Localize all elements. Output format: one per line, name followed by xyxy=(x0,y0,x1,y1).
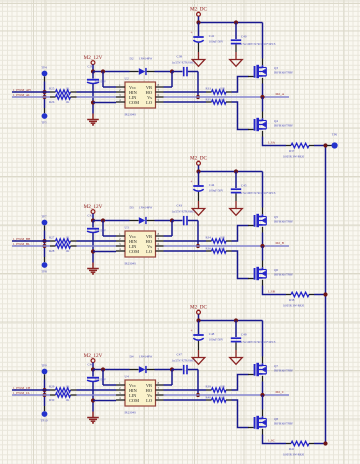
svg-text:R37: R37 xyxy=(289,149,295,153)
testpoint TP8 xyxy=(41,246,47,273)
wire LO xyxy=(164,101,207,103)
capacitor C46 (12V decoupling) xyxy=(87,362,107,411)
svg-text:R41: R41 xyxy=(289,447,295,451)
wire COM to gnd xyxy=(93,251,116,253)
svg-text:M2_DC: M2_DC xyxy=(190,305,208,311)
capacitor C43 (bootstrap) xyxy=(172,204,199,226)
wire HO to high gate xyxy=(232,77,249,93)
wire shunt to sense rail xyxy=(314,443,327,445)
junction TP/HIN xyxy=(43,388,47,392)
wire LIN to pin 3 xyxy=(77,96,117,98)
svg-text:4: 4 xyxy=(119,98,121,102)
svg-text:4.7u/100V/X7R/1210*2PCS: 4.7u/100V/X7R/1210*2PCS xyxy=(240,42,276,46)
wire 12V to bootstrap diode xyxy=(93,220,130,222)
svg-text:1uF/50V: 1uF/50V xyxy=(95,229,107,233)
svg-text:IRFB3607PBF: IRFB3607PBF xyxy=(274,368,293,372)
wire LIN input xyxy=(12,96,50,98)
ground (12V/COM) xyxy=(87,263,99,274)
svg-text:D2: D2 xyxy=(130,57,134,61)
wire phase to low drain xyxy=(262,246,264,261)
svg-text:2: 2 xyxy=(119,386,121,390)
svg-text:C49: C49 xyxy=(241,332,247,336)
junction sense phase B xyxy=(323,292,327,296)
svg-text:I_SA: I_SA xyxy=(268,141,276,145)
power port M2_12V xyxy=(84,55,103,72)
svg-text:Q4: Q4 xyxy=(274,119,278,123)
svg-text:1uF/50V: 1uF/50V xyxy=(95,378,107,382)
node 1_PWM_BH xyxy=(13,237,31,241)
resistor R41 0.005R xyxy=(283,441,314,456)
svg-text:R40: R40 xyxy=(206,395,212,399)
node M2_B xyxy=(276,241,285,245)
svg-text:10R: 10R xyxy=(220,395,226,399)
svg-text:M2_B: M2_B xyxy=(276,241,285,245)
wire HIN input xyxy=(12,240,50,242)
transistor Q4 xyxy=(248,118,293,131)
resistor R33 10R xyxy=(206,86,232,94)
svg-text:M2_12V: M2_12V xyxy=(84,204,103,210)
svg-text:TP8: TP8 xyxy=(41,269,47,273)
wire VB link xyxy=(171,370,173,386)
wire TP link xyxy=(44,390,46,395)
node 1_PWM_AL xyxy=(13,93,30,97)
svg-text:R38: R38 xyxy=(289,298,295,302)
power port M2_12V xyxy=(84,353,103,370)
wire COM to gnd xyxy=(93,102,116,104)
svg-text:R26: R26 xyxy=(49,100,55,104)
svg-text:+: + xyxy=(190,180,192,184)
wire DC down to high-side drain xyxy=(262,321,264,357)
svg-text:IRFB3607PBF: IRFB3607PBF xyxy=(274,123,293,127)
svg-text:+: + xyxy=(190,31,192,35)
svg-text:7: 7 xyxy=(158,386,160,390)
power port M2_12V xyxy=(84,204,103,221)
testpoint TP7 xyxy=(41,215,47,241)
svg-text:0.005R 3W-R820: 0.005R 3W-R820 xyxy=(283,452,305,456)
wire phase to low drain xyxy=(262,97,264,112)
resistor R30 1K xyxy=(49,393,77,402)
svg-text:10R: 10R xyxy=(220,246,226,250)
svg-text:R25: R25 xyxy=(49,86,55,90)
node M2_A xyxy=(276,92,285,96)
svg-text:VB: VB xyxy=(146,383,152,388)
svg-text:Vs: Vs xyxy=(147,95,152,100)
op-amp U4 gate driver U4 IR2304S xyxy=(116,375,164,415)
svg-text:100uF/50V: 100uF/50V xyxy=(209,188,224,192)
svg-text:1K: 1K xyxy=(66,384,71,388)
svg-text:8: 8 xyxy=(158,232,160,236)
svg-text:R28: R28 xyxy=(49,249,55,253)
svg-text:1K: 1K xyxy=(66,86,71,90)
svg-text:1K: 1K xyxy=(66,249,71,253)
svg-text:3: 3 xyxy=(119,242,121,246)
node 1_PWM_CL xyxy=(13,391,30,395)
svg-text:1u/25V/X7R/0603: 1u/25V/X7R/0603 xyxy=(172,358,195,362)
ground (power gnd under bulk cap) xyxy=(192,358,205,365)
wire high source to phase xyxy=(262,376,264,382)
wire COM to gnd xyxy=(93,400,116,402)
svg-text:TP4: TP4 xyxy=(41,66,47,70)
wire LO xyxy=(164,399,207,401)
svg-text:COM: COM xyxy=(129,100,139,105)
svg-text:M2_A: M2_A xyxy=(276,92,285,96)
svg-text:R39: R39 xyxy=(206,384,212,388)
junction DC/C41 xyxy=(196,20,200,24)
testpoint TP6 xyxy=(327,142,338,148)
svg-text:D3: D3 xyxy=(130,206,134,210)
svg-text:HIN: HIN xyxy=(129,90,138,95)
wire 12V to bootstrap diode xyxy=(93,71,130,73)
wire LIN to pin 3 xyxy=(77,245,117,247)
wire LO to low gate xyxy=(232,400,249,428)
wire LIN input xyxy=(12,394,50,396)
wire TP link xyxy=(44,92,46,97)
junction Vs/bootstrap xyxy=(196,95,200,99)
resistor R27 1K xyxy=(49,235,77,243)
wire HO xyxy=(164,389,207,391)
svg-text:I_SC: I_SC xyxy=(268,439,276,443)
wire VB link xyxy=(171,72,173,88)
junction 12V node xyxy=(91,367,95,371)
ground (12V/COM) xyxy=(87,412,99,423)
node I_SA xyxy=(268,141,276,145)
svg-text:Vcc: Vcc xyxy=(129,383,136,388)
junction DC/C40 xyxy=(234,169,238,173)
wire HIN input xyxy=(12,389,50,391)
svg-text:M2_12V: M2_12V xyxy=(84,55,103,61)
resistor R36 10R xyxy=(206,246,232,253)
svg-text:R27: R27 xyxy=(49,235,55,239)
resistor R34 10R xyxy=(206,235,232,243)
wire bootstrap to Vs xyxy=(197,72,199,98)
resistor R25 1K xyxy=(49,86,77,94)
svg-text:C43: C43 xyxy=(177,204,183,208)
svg-text:1u/25V/X7R/0603: 1u/25V/X7R/0603 xyxy=(172,60,195,64)
junction COM/gnd xyxy=(91,249,95,253)
node 1_PWM_BL xyxy=(13,242,30,246)
svg-text:1N4148W: 1N4148W xyxy=(139,355,152,359)
svg-text:VB: VB xyxy=(146,234,152,239)
wire DC rail xyxy=(199,171,263,173)
capacitor C44 (bulk electrolytic) xyxy=(190,172,224,209)
svg-text:1: 1 xyxy=(119,381,121,385)
svg-text:1K: 1K xyxy=(66,235,71,239)
svg-text:Q8: Q8 xyxy=(274,417,278,421)
svg-text:COM: COM xyxy=(129,249,139,254)
svg-text:R34: R34 xyxy=(206,235,212,239)
svg-text:D4: D4 xyxy=(130,355,134,359)
svg-text:0.005R 3W-R820: 0.005R 3W-R820 xyxy=(283,303,305,307)
svg-text:U3: U3 xyxy=(125,226,129,230)
svg-text:Vs: Vs xyxy=(147,244,152,249)
svg-text:M2_C: M2_C xyxy=(276,390,285,394)
resistor R39 10R xyxy=(206,384,232,392)
ground (power gnd under bulk cap) xyxy=(192,209,205,216)
ground (power gnd under ceramic cap) xyxy=(230,358,243,365)
svg-text:C48: C48 xyxy=(209,332,215,336)
resistor R37 0.005R xyxy=(283,143,314,158)
svg-text:U2: U2 xyxy=(125,77,129,81)
svg-text:IRFB3607PBF: IRFB3607PBF xyxy=(274,272,293,276)
wire HO to high gate xyxy=(232,226,249,242)
junction 12V node xyxy=(91,69,95,73)
junction 12V node xyxy=(91,218,95,222)
wire LO to low gate xyxy=(232,102,249,130)
transistor Q7 xyxy=(248,363,293,376)
svg-text:4: 4 xyxy=(119,396,121,400)
svg-text:IR2304S: IR2304S xyxy=(125,411,137,415)
svg-text:1: 1 xyxy=(119,232,121,236)
svg-text:IR2304S: IR2304S xyxy=(125,113,137,117)
svg-text:IRFB3607PBF: IRFB3607PBF xyxy=(274,219,293,223)
wire current-sense rail xyxy=(325,146,327,444)
junction sense phase C xyxy=(323,441,327,445)
wire LIN input xyxy=(12,245,50,247)
svg-text:LIN: LIN xyxy=(129,95,137,100)
resistor R38 0.005R xyxy=(283,292,314,307)
wire HIN input xyxy=(12,91,50,93)
wire HO xyxy=(164,240,207,242)
wire shunt to sense rail xyxy=(314,294,327,296)
svg-text:1: 1 xyxy=(119,83,121,87)
svg-text:TP9: TP9 xyxy=(41,364,47,368)
svg-text:LIN: LIN xyxy=(129,244,137,249)
testpoint TP10 xyxy=(41,395,48,422)
junction VB node xyxy=(170,69,174,73)
junction Vs/bootstrap xyxy=(196,393,200,397)
diode D3 1N4148W xyxy=(130,206,155,224)
wire bootstrap to Vs xyxy=(197,370,199,396)
svg-text:Q7: Q7 xyxy=(274,364,278,368)
junction TP/LIN xyxy=(43,393,47,397)
svg-text:3: 3 xyxy=(119,391,121,395)
svg-text:1_PWM_CH: 1_PWM_CH xyxy=(13,386,31,390)
power port M2_DC xyxy=(190,305,208,321)
svg-text:Q5: Q5 xyxy=(274,215,278,219)
svg-text:7: 7 xyxy=(158,237,160,241)
op-amp U2 gate driver U2 IR2304S xyxy=(116,77,164,117)
junction phase node xyxy=(260,244,264,248)
node 1_PWM_AH xyxy=(13,88,31,92)
capacitor C49 (DC ceramic) xyxy=(231,321,276,358)
junction Vcc tap xyxy=(101,367,105,371)
wire DC rail xyxy=(199,22,263,24)
junction phase node xyxy=(260,393,264,397)
junction TP/HIN xyxy=(43,239,47,243)
svg-text:LIN: LIN xyxy=(129,393,137,398)
svg-text:10R: 10R xyxy=(220,235,226,239)
svg-text:U4: U4 xyxy=(125,375,129,379)
wire high source to phase xyxy=(262,78,264,84)
transistor Q3 xyxy=(248,65,293,78)
power port M2_DC xyxy=(190,156,208,172)
wire HIN to pin 2 xyxy=(77,91,117,93)
wire DC rail xyxy=(199,320,263,322)
wire HO xyxy=(164,91,207,93)
wire TP link xyxy=(44,241,46,246)
svg-text:10R: 10R xyxy=(220,384,226,388)
svg-text:IRFB3607PBF: IRFB3607PBF xyxy=(274,421,293,425)
capacitor C41 (bulk electrolytic) xyxy=(190,23,224,60)
power port M2_DC xyxy=(190,7,208,23)
svg-text:100uF/50V: 100uF/50V xyxy=(209,337,224,341)
wire Vs phase node xyxy=(164,394,290,396)
junction Vs/bootstrap xyxy=(196,244,200,248)
svg-text:Q3: Q3 xyxy=(274,66,278,70)
wire diode to VB node xyxy=(155,369,173,371)
capacitor C48 (bulk electrolytic) xyxy=(190,321,224,358)
node M2_C xyxy=(276,390,285,394)
junction DC/C41 xyxy=(196,169,200,173)
junction TP/LIN xyxy=(43,244,47,248)
svg-text:HO: HO xyxy=(146,239,152,244)
ground (power gnd under ceramic cap) xyxy=(230,209,243,216)
ground (power gnd under bulk cap) xyxy=(192,60,205,67)
junction Vcc tap xyxy=(101,69,105,73)
svg-text:R36: R36 xyxy=(206,246,212,250)
junction DC/C40 xyxy=(234,20,238,24)
svg-text:10R: 10R xyxy=(220,86,226,90)
svg-text:6: 6 xyxy=(158,391,160,395)
ground (12V/COM) xyxy=(87,114,99,125)
svg-text:TP7: TP7 xyxy=(41,215,47,219)
wire low source down xyxy=(262,131,264,137)
svg-text:M2_DC: M2_DC xyxy=(190,7,208,13)
svg-text:Q6: Q6 xyxy=(274,268,278,272)
svg-text:C44: C44 xyxy=(209,183,215,187)
svg-text:6: 6 xyxy=(158,242,160,246)
wire HIN to pin 2 xyxy=(77,389,117,391)
svg-text:7: 7 xyxy=(158,88,160,92)
wire LO xyxy=(164,250,207,252)
svg-text:C41: C41 xyxy=(209,34,215,38)
svg-text:1N4148W: 1N4148W xyxy=(139,57,152,61)
svg-text:10R: 10R xyxy=(220,97,226,101)
resistor R40 10R xyxy=(206,395,232,402)
svg-text:C38: C38 xyxy=(177,55,183,59)
svg-text:C45: C45 xyxy=(241,183,247,187)
junction VB node xyxy=(170,367,174,371)
svg-text:C40: C40 xyxy=(241,34,247,38)
wire VB link xyxy=(171,221,173,237)
svg-text:1_PWM_AH: 1_PWM_AH xyxy=(13,88,31,92)
wire Vs phase node xyxy=(164,96,290,98)
wire high source to phase xyxy=(262,227,264,233)
svg-text:1K: 1K xyxy=(66,398,71,402)
svg-text:C47: C47 xyxy=(177,353,183,357)
wire diode to VB node xyxy=(155,220,173,222)
svg-text:5: 5 xyxy=(158,396,160,400)
svg-text:+: + xyxy=(190,329,192,333)
svg-text:HO: HO xyxy=(146,90,152,95)
svg-text:LO: LO xyxy=(146,249,152,254)
resistor R29 1K xyxy=(49,384,77,392)
svg-text:1uF/50V: 1uF/50V xyxy=(95,80,107,84)
svg-text:2: 2 xyxy=(119,237,121,241)
wire LO to low gate xyxy=(232,251,249,279)
wire shunt to sense rail xyxy=(314,145,327,147)
junction TP/HIN xyxy=(43,90,47,94)
diode D4 1N4148W xyxy=(130,355,155,373)
svg-text:4: 4 xyxy=(119,247,121,251)
resistor R35 10R xyxy=(206,97,232,104)
junction COM/gnd xyxy=(91,100,95,104)
svg-text:IR2304S: IR2304S xyxy=(125,262,137,266)
svg-text:I_SB: I_SB xyxy=(268,290,276,294)
svg-text:C42: C42 xyxy=(88,213,94,217)
wire low source down xyxy=(262,429,264,435)
junction DC/C40 xyxy=(234,318,238,322)
svg-text:Vcc: Vcc xyxy=(129,234,136,239)
svg-text:TP5: TP5 xyxy=(41,120,47,124)
node I_SC xyxy=(268,439,276,443)
svg-text:Vcc: Vcc xyxy=(129,85,136,90)
wire 12V to bootstrap diode xyxy=(93,369,130,371)
svg-text:4.7u/100V/X7R/1210*2PCS: 4.7u/100V/X7R/1210*2PCS xyxy=(240,340,276,344)
junction TP/LIN xyxy=(43,95,47,99)
ground (power gnd under ceramic cap) xyxy=(230,60,243,67)
svg-text:C46: C46 xyxy=(88,362,94,366)
transistor Q8 xyxy=(248,416,293,429)
svg-text:8: 8 xyxy=(158,83,160,87)
transistor Q6 xyxy=(248,267,293,280)
wire DC down to high-side drain xyxy=(262,23,264,59)
svg-text:R29: R29 xyxy=(49,384,55,388)
svg-text:TP6: TP6 xyxy=(332,133,338,137)
svg-text:Vs: Vs xyxy=(147,393,152,398)
svg-text:100uF/50V: 100uF/50V xyxy=(209,39,224,43)
svg-text:1_PWM_BH: 1_PWM_BH xyxy=(13,237,31,241)
capacitor C42 (12V decoupling) xyxy=(87,213,107,262)
svg-text:5: 5 xyxy=(158,98,160,102)
junction COM/gnd xyxy=(91,398,95,402)
capacitor C47 (bootstrap) xyxy=(172,353,199,375)
svg-text:6: 6 xyxy=(158,93,160,97)
wire diode to VB node xyxy=(155,71,173,73)
wire HIN to pin 2 xyxy=(77,240,117,242)
wire LIN to pin 3 xyxy=(77,394,117,396)
svg-text:R33: R33 xyxy=(206,86,212,90)
svg-text:M2_DC: M2_DC xyxy=(190,156,208,162)
wire low source down xyxy=(262,280,264,286)
op-amp U3 gate driver U3 IR2304S xyxy=(116,226,164,266)
svg-text:TP10: TP10 xyxy=(41,418,48,422)
wire Vcc tap down to pin 1 xyxy=(102,221,104,237)
svg-text:VB: VB xyxy=(146,85,152,90)
svg-text:5: 5 xyxy=(158,247,160,251)
svg-text:HIN: HIN xyxy=(129,388,138,393)
svg-text:M2_12V: M2_12V xyxy=(84,353,103,359)
testpoint TP9 xyxy=(41,364,47,390)
diode D2 1N4148W xyxy=(130,57,155,75)
svg-text:0.005R 3W-R820: 0.005R 3W-R820 xyxy=(283,154,305,158)
node I_SB xyxy=(268,290,276,294)
svg-text:2: 2 xyxy=(119,88,121,92)
wire phase to low drain xyxy=(262,395,264,410)
svg-text:IRFB3607PBF: IRFB3607PBF xyxy=(274,70,293,74)
wire Vcc tap down to pin 1 xyxy=(102,370,104,386)
resistor R28 1K xyxy=(49,244,77,253)
svg-text:LO: LO xyxy=(146,100,152,105)
wire HO to high gate xyxy=(232,375,249,391)
testpoint TP5 xyxy=(41,97,47,124)
svg-text:R35: R35 xyxy=(206,97,212,101)
svg-text:LO: LO xyxy=(146,398,152,403)
svg-text:1K: 1K xyxy=(66,100,71,104)
wire DC down to high-side drain xyxy=(262,172,264,208)
svg-text:4.7u/100V/X7R/1210*2PCS: 4.7u/100V/X7R/1210*2PCS xyxy=(240,191,276,195)
svg-text:1u/25V/X7R/0603: 1u/25V/X7R/0603 xyxy=(172,209,195,213)
